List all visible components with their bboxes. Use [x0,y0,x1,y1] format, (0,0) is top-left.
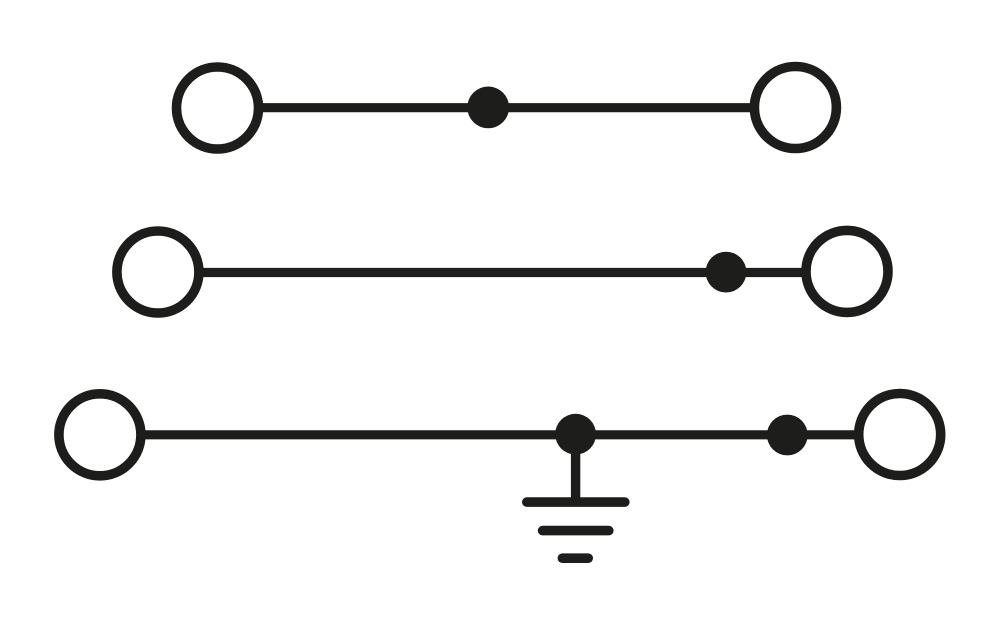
terminal: level-1 right clamp [754,67,836,149]
wire level-3 bus [100,430,900,439]
ground bar 2 [543,526,609,536]
ground symbol [527,434,625,558]
node: level-2 junction dot [706,252,747,293]
terminal: level-2 left clamp [117,231,199,313]
terminal: level-3 right clamp [859,394,941,476]
level 3 (bottom, PE) [59,394,941,476]
wire: ground stem [571,434,580,502]
wire level-1 bus [218,103,796,112]
terminal: level-3 left clamp [59,394,141,476]
node: level-1 junction dot [467,87,509,129]
node: level-3 ground junction dot [555,414,596,455]
wire level-2 bus [158,268,847,277]
ground bar 3 [562,553,588,563]
terminal: level-2 right clamp [806,230,888,312]
terminal: level-1 left clamp [177,67,259,149]
level 1 (top) [177,67,837,150]
ground bar 1 [527,497,625,507]
node: level-3 right junction dot [767,415,808,456]
level 2 (middle) [117,230,888,313]
